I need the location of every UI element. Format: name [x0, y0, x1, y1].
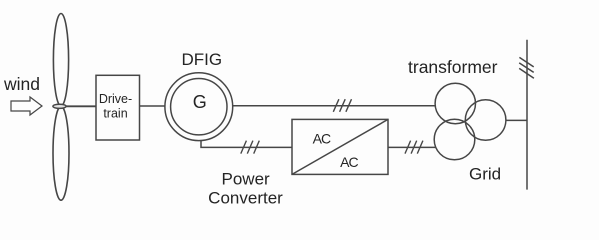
svg-text:Grid: Grid — [469, 165, 501, 184]
svg-text:AC: AC — [313, 131, 331, 147]
svg-text:G: G — [193, 92, 207, 112]
svg-text:Drive-: Drive- — [99, 92, 132, 106]
svg-text:AC: AC — [340, 154, 358, 170]
svg-text:train: train — [103, 107, 127, 121]
svg-text:Converter: Converter — [208, 188, 283, 207]
svg-text:DFIG: DFIG — [182, 50, 223, 69]
svg-text:Power: Power — [222, 170, 271, 189]
svg-text:transformer: transformer — [408, 57, 498, 77]
svg-text:wind: wind — [3, 74, 40, 94]
